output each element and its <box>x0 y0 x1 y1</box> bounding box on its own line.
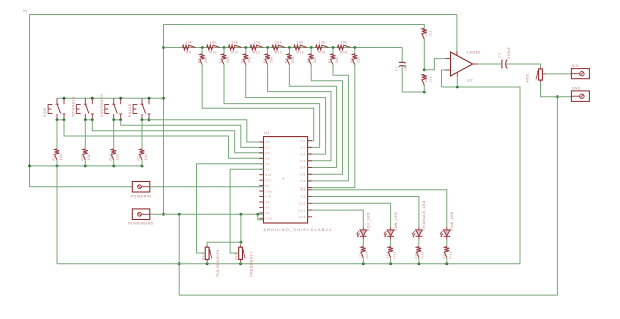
wire pot1 top branch <box>207 242 241 245</box>
wire GND lower bus y295 <box>179 294 557 296</box>
wire POWERGND bus <box>150 213 264 216</box>
resistor R8 20k (shunt) <box>350 48 361 65</box>
svg-text:R31: R31 <box>365 251 369 258</box>
svg-text:20k: 20k <box>291 56 295 63</box>
svg-text:10k: 10k <box>253 41 260 45</box>
svg-text:R2: R2 <box>219 58 223 63</box>
wire ladder bit 5 to U1 <box>308 64 343 174</box>
svg-text:GND: GND <box>572 86 581 90</box>
svg-text:3V3: 3V3 <box>266 178 272 182</box>
svg-text:R6: R6 <box>306 58 310 63</box>
resistor R15 10k (series) <box>315 41 329 55</box>
svg-text:+: + <box>453 57 455 61</box>
svg-text:IO9: IO9 <box>300 195 306 199</box>
svg-text:10k: 10k <box>428 76 432 82</box>
wire 5V top rail <box>30 14 457 16</box>
svg-text:10k: 10k <box>144 154 148 161</box>
svg-text:PULSEWIDTH: PULSEWIDTH <box>216 249 220 276</box>
resistor R23 pulldown 10k <box>109 120 120 166</box>
svg-text:IO11: IO11 <box>298 208 305 212</box>
wire switch S4 to U1 <box>149 120 264 142</box>
svg-text:R8: R8 <box>350 58 354 63</box>
switch S3 SAWTOOTH <box>100 94 123 120</box>
svg-text:A0: A0 <box>266 162 270 166</box>
wire ladder bit 7 to U1 <box>308 64 355 188</box>
resistor R1 20k (shunt) <box>197 48 208 65</box>
wire switch S1 to U1 <box>64 120 264 158</box>
svg-text:R12: R12 <box>253 50 261 54</box>
svg-text:IO3: IO3 <box>300 159 306 163</box>
wire op-amp GND pin <box>456 77 458 88</box>
svg-text:220: 220 <box>414 252 418 259</box>
svg-text:10k: 10k <box>275 41 282 45</box>
resistor R4 20k (shunt) <box>263 48 274 65</box>
svg-text:R10: R10 <box>209 50 217 54</box>
svg-text:A1: A1 <box>266 167 270 171</box>
svg-text:IO1: IO1 <box>300 146 306 150</box>
wire pot2 top branch <box>240 242 242 245</box>
connector X2 GND <box>571 86 589 101</box>
wire ladder bit 2 to U1 <box>246 64 326 154</box>
resistor R7 20k (shunt) <box>328 48 339 65</box>
resistor R2 20k (shunt) <box>219 48 230 65</box>
resistor R10 10k (series) <box>206 41 220 55</box>
svg-text:IO8: IO8 <box>300 188 306 192</box>
svg-text:10k: 10k <box>185 41 192 45</box>
svg-text:R4: R4 <box>263 58 267 63</box>
wire switch S3 bottom <box>112 118 122 121</box>
resistor R31 220 for LED1 <box>358 240 369 264</box>
op-amp U2 LM386 <box>445 51 481 83</box>
svg-text:10k: 10k <box>297 41 304 45</box>
wire switch S2 to U1 <box>92 120 263 153</box>
svg-text:−: − <box>453 69 455 73</box>
wire switch S2 bottom <box>84 118 94 121</box>
wire GND riser x178.7 <box>178 214 181 295</box>
LED LED3 TRIANGLE_LED <box>412 200 426 240</box>
svg-text:SAWTOOTH: SAWTOOTH <box>100 94 104 117</box>
svg-text:U2: U2 <box>467 78 473 82</box>
svg-text:IO10: IO10 <box>298 202 306 206</box>
connector J2 POWERGND <box>128 209 154 226</box>
svg-text:ARDUINO_SHIELDLABCL: ARDUINO_SHIELDLABCL <box>263 227 333 232</box>
svg-text:A2: A2 <box>266 200 270 204</box>
svg-text:FREQUENCY: FREQUENCY <box>249 250 253 276</box>
resistor R13 10k (series) <box>272 41 286 55</box>
svg-text:PULSE: PULSE <box>128 103 132 117</box>
svg-text:GND: GND <box>266 189 273 193</box>
wire U1 to LED3 <box>312 197 419 227</box>
resistor R9 10k (series) <box>182 41 196 55</box>
wire U1 to LED1 <box>312 210 363 227</box>
svg-text:R9: R9 <box>186 50 191 54</box>
svg-text:5V: 5V <box>266 184 270 188</box>
LED LED2 SAW_LED <box>384 212 398 240</box>
svg-text:R24: R24 <box>137 153 141 160</box>
svg-text:R15: R15 <box>318 50 326 54</box>
potentiometer R18 FREQUENCY <box>234 245 253 276</box>
svg-text:10k: 10k <box>340 41 347 45</box>
LED LED4 SINE_LED <box>440 211 454 240</box>
svg-text:GND: GND <box>266 217 273 221</box>
resistor R22 pulldown 10k <box>81 120 92 166</box>
svg-text:R32: R32 <box>392 251 396 258</box>
wire GND bottom bus <box>57 262 520 265</box>
svg-text:220: 220 <box>442 252 446 259</box>
svg-text:D3: D3 <box>266 157 270 161</box>
LED LED1 SQU_LED <box>357 212 371 240</box>
resistor R19 10k (divider top) <box>422 28 432 71</box>
svg-text:R18: R18 <box>234 253 238 260</box>
wire pull-down bus <box>28 165 143 168</box>
wire pot1 wiper to U1 <box>197 164 264 253</box>
wire cap to divider bottom <box>402 91 425 94</box>
svg-text:+: + <box>282 177 284 181</box>
svg-text:D0: D0 <box>266 140 270 144</box>
connector J1 POWERIN <box>131 182 152 199</box>
svg-text:U1: U1 <box>264 131 270 135</box>
svg-text:R23: R23 <box>109 153 113 160</box>
svg-text:D13: D13 <box>299 215 305 219</box>
wire ladder bit 1 to U1 <box>224 64 320 147</box>
wire switch S1 bottom <box>56 118 66 121</box>
svg-text:R22: R22 <box>81 153 85 160</box>
resistor R6 20k (shunt) <box>306 48 317 65</box>
svg-text:R3: R3 <box>241 58 245 63</box>
resistor R11 10k (series) <box>228 41 242 55</box>
svg-text:10k: 10k <box>319 41 326 45</box>
svg-text:R14: R14 <box>297 50 305 54</box>
wire ladder bit 6 to U1 <box>308 64 349 181</box>
resistor R20 10k (divider bottom) <box>422 74 432 92</box>
svg-text:POWERGND: POWERGND <box>128 222 154 226</box>
wire ladder bit 0 to U1 <box>202 64 314 141</box>
svg-text:R17: R17 <box>201 253 205 260</box>
resistor R24 pulldown 10k <box>137 120 148 166</box>
switch S4 PULSE <box>128 98 151 120</box>
svg-text:R16: R16 <box>340 50 348 54</box>
svg-text:10k: 10k <box>59 154 63 161</box>
net label 5V <box>23 9 28 13</box>
resistor R16 10k (series) <box>337 41 351 55</box>
wire GND top jog to divider <box>164 25 425 29</box>
capacitor C1 10uF (to GND) <box>395 48 408 93</box>
switch S1 SINE <box>43 98 66 120</box>
svg-text:20k: 20k <box>313 56 317 63</box>
svg-text:10uF: 10uF <box>403 62 407 71</box>
svg-text:10k: 10k <box>116 154 120 161</box>
svg-text:R1: R1 <box>197 58 201 63</box>
svg-text:IO6: IO6 <box>300 179 306 183</box>
IC U1 ARDUINO_SHIELDLABCL <box>259 131 333 232</box>
wire pot top feed <box>240 214 243 243</box>
svg-text:SQU_LED: SQU_LED <box>367 212 371 231</box>
svg-text:5V: 5V <box>23 9 28 13</box>
wire 5V to POWERIN <box>30 186 133 188</box>
svg-text:10k: 10k <box>231 41 238 45</box>
svg-text:POWERIN: POWERIN <box>131 194 152 198</box>
svg-text:10k: 10k <box>428 30 432 36</box>
svg-text:C9: C9 <box>498 53 502 58</box>
potentiometer R21 AVOL <box>526 67 546 82</box>
wire ladder bit 4 to U1 <box>289 64 336 168</box>
wire U1 to LED4 <box>312 190 447 227</box>
svg-text:IO2: IO2 <box>300 152 306 156</box>
wire volume wiper to SIG <box>546 73 572 75</box>
potentiometer R17 PULSEWIDTH <box>201 245 220 276</box>
svg-text:RST: RST <box>266 173 273 177</box>
wire GND rail under op-amp <box>442 86 521 264</box>
svg-text:10k: 10k <box>210 41 217 45</box>
resistor R34 220 for LED4 <box>442 240 453 264</box>
svg-text:SAW_LED: SAW_LED <box>394 212 398 231</box>
wire GND right riser x557 <box>556 95 559 295</box>
switch S2 TRIANGLE <box>71 96 94 120</box>
wire pot1 bottom <box>206 262 208 264</box>
svg-text:R34: R34 <box>449 251 453 258</box>
svg-text:SINE_LED: SINE_LED <box>450 211 454 231</box>
svg-text:VIN: VIN <box>266 195 272 199</box>
svg-text:A4: A4 <box>266 211 270 215</box>
wire GND vertical x163 <box>162 25 165 216</box>
resistor R3 20k (shunt) <box>241 48 252 65</box>
node ladder rail <box>164 46 403 49</box>
resistor R5 20k (shunt) <box>285 48 296 65</box>
wire pot2 wiper to U1 <box>230 169 263 253</box>
svg-text:10k: 10k <box>87 154 91 161</box>
svg-text:20k: 20k <box>357 56 361 63</box>
wire switch S3 to U1 <box>121 120 264 148</box>
svg-text:R33: R33 <box>421 251 425 258</box>
wire op-amp output <box>478 63 501 65</box>
svg-text:R7: R7 <box>328 58 332 63</box>
resistor R32 220 for LED2 <box>386 240 397 264</box>
wire GND pin jog <box>258 214 264 220</box>
svg-text:20k: 20k <box>248 56 252 63</box>
svg-text:C1: C1 <box>395 66 399 71</box>
svg-text:R13: R13 <box>275 50 283 54</box>
wire POWERIN to U1 5V pin <box>150 186 264 188</box>
svg-text:20k: 20k <box>335 56 339 63</box>
svg-text:AVOL: AVOL <box>526 72 530 82</box>
wire switch top rail <box>57 97 164 100</box>
svg-text:D1: D1 <box>266 146 270 150</box>
svg-text:20k: 20k <box>226 56 230 63</box>
capacitor C9 220uF (output coupling) <box>498 47 511 69</box>
svg-text:R5: R5 <box>285 58 289 63</box>
svg-text:220: 220 <box>386 252 390 259</box>
wire ladder bit 3 to U1 <box>268 64 331 161</box>
svg-text:IO5: IO5 <box>300 172 306 176</box>
svg-text:20k: 20k <box>204 56 208 63</box>
wire 5V left vertical <box>29 15 31 187</box>
wire cap to volume pot <box>506 64 540 67</box>
svg-text:TRIANGLE_LED: TRIANGLE_LED <box>422 200 426 231</box>
resistor R12 10k (series) <box>250 41 264 55</box>
svg-text:SIG: SIG <box>572 64 579 68</box>
wire op-amp - input to GND <box>442 70 446 87</box>
svg-text:LM386: LM386 <box>467 51 481 55</box>
resistor R33 220 for LED3 <box>414 240 425 264</box>
wire volume bottom to GND <box>541 82 572 97</box>
svg-text:A3: A3 <box>266 206 270 210</box>
svg-text:220: 220 <box>358 252 362 259</box>
svg-text:20k: 20k <box>269 56 273 63</box>
wire 5V to op-amp VCC pin <box>456 15 458 56</box>
svg-text:SINE: SINE <box>43 107 47 117</box>
svg-text:IO0: IO0 <box>300 139 306 143</box>
wire left GND riser <box>56 166 58 264</box>
resistor R21 pulldown 10k <box>52 120 63 166</box>
wire divider to op-amp + input <box>424 59 445 70</box>
wire switch S4 bottom <box>141 118 151 121</box>
wire U1 to LED2 <box>312 203 391 226</box>
svg-text:R21: R21 <box>52 153 56 160</box>
svg-text:220uF: 220uF <box>507 47 511 59</box>
svg-text:IO4: IO4 <box>300 166 306 170</box>
svg-text:TRIANGLE: TRIANGLE <box>71 96 75 117</box>
wire pot2 bottom <box>240 262 242 264</box>
svg-text:R11: R11 <box>231 50 238 54</box>
svg-text:D2: D2 <box>266 151 270 155</box>
connector X1 SIG <box>571 64 589 79</box>
resistor R14 10k (series) <box>293 41 307 55</box>
